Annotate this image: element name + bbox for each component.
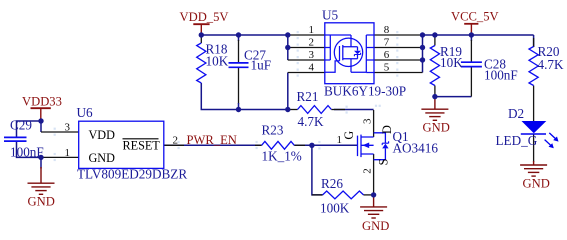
svg-text:3: 3 [65, 121, 71, 133]
resistor R20 [529, 47, 538, 86]
capacitor C27 [229, 63, 249, 67]
wire R21 to Q1 drain elbow [334, 109, 374, 111]
wire PWR_EN net [164, 144, 262, 146]
svg-text:BUK6Y19-30P: BUK6Y19-30P [324, 83, 406, 98]
svg-text:GND: GND [523, 177, 550, 191]
pin U5 pin8 [374, 34, 423, 36]
svg-text:GND: GND [89, 151, 116, 165]
wire C28 top hang [470, 35, 472, 41]
svg-text:R21: R21 [297, 89, 319, 104]
wire gate node drop [312, 145, 323, 195]
D2 emission arrow 2 [545, 140, 553, 147]
svg-text:G: G [342, 131, 356, 140]
svg-text:2: 2 [309, 37, 315, 49]
pin U5 pin5 [374, 72, 423, 74]
wire VDD_5V rail [201, 34, 287, 36]
wire U6 gnd stub [40, 157, 42, 168]
pin U5 pin1 [288, 34, 325, 36]
pin R20 bottom lead [533, 86, 535, 122]
svg-text:4: 4 [309, 62, 315, 74]
pin U5 pin4 [288, 72, 325, 74]
pin U5 pin2 [288, 47, 325, 49]
svg-text:7: 7 [384, 37, 390, 49]
pin R21 left lead [288, 109, 298, 111]
pin C28 top lead [470, 40, 472, 62]
U6 RESET overline [123, 138, 159, 140]
svg-text:R23: R23 [262, 122, 284, 137]
svg-text:U6: U6 [77, 105, 94, 120]
wire gate rail R18/C27 bottom to R21 [201, 83, 287, 110]
wire U5 right bus [422, 35, 424, 73]
pin Q1 drain [373, 110, 375, 137]
svg-text:8: 8 [384, 24, 390, 36]
svg-text:D: D [380, 125, 394, 134]
svg-text:2: 2 [173, 135, 179, 147]
svg-text:1: 1 [309, 24, 315, 36]
svg-text:4.7K: 4.7K [298, 114, 324, 129]
pin R23 right lead [294, 144, 305, 146]
U5 inner mosfet symbol [325, 35, 374, 73]
svg-text:VCC_5V: VCC_5V [451, 9, 499, 23]
pin U5 pin3 [288, 59, 325, 61]
svg-text:AO3416: AO3416 [393, 140, 439, 155]
resistor R26 [323, 191, 364, 199]
capacitor C29 [4, 137, 27, 141]
resistor R19 [430, 46, 439, 86]
svg-text:VDD: VDD [89, 128, 116, 142]
wire U5 left bus [287, 35, 289, 60]
svg-text:U5: U5 [322, 8, 339, 23]
wire VCC_5V rail [423, 34, 534, 36]
pin C27 top lead [238, 40, 240, 63]
svg-text:100K: 100K [320, 201, 350, 216]
pin R23 left lead [255, 144, 262, 146]
pin R26 left lead [312, 194, 323, 196]
D2 emission arrow 1 [549, 133, 557, 140]
resistor R21 [298, 106, 332, 114]
pin R19 bottom lead [434, 86, 436, 97]
svg-text:1: 1 [65, 147, 71, 159]
wire R19 bottom to C28 bottom [435, 96, 472, 98]
U5 body diode triangle [354, 51, 361, 55]
svg-text:1uF: 1uF [251, 57, 272, 72]
pin R18 top lead [200, 35, 202, 43]
op-amp U6 box [79, 121, 164, 168]
svg-text:10K: 10K [440, 55, 463, 70]
pin Q1 source [373, 154, 375, 196]
svg-text:GND: GND [28, 195, 55, 209]
power VCC_5V bar [464, 23, 478, 25]
svg-text:LED_G: LED_G [496, 133, 538, 148]
pin U6 pin1 [41, 156, 79, 158]
svg-text:D2: D2 [508, 106, 524, 121]
svg-text:1K_1%: 1K_1% [262, 149, 302, 164]
svg-text:RESET: RESET [123, 139, 161, 153]
pin R20 top lead [533, 38, 535, 47]
D2 cathode bar [521, 133, 546, 135]
resistor R23 [262, 141, 295, 149]
pin U5 pin7 [374, 47, 423, 49]
ground under U6 [28, 167, 55, 194]
U5 body diode bar [354, 53, 360, 56]
svg-text:4.7K: 4.7K [538, 57, 564, 72]
resistor R18 [197, 43, 206, 83]
power VDD_5V bar [193, 23, 209, 25]
svg-text:3: 3 [309, 49, 315, 61]
pin R21 right lead [331, 109, 345, 111]
svg-text:TLV809ED29DBZR: TLV809ED29DBZR [77, 166, 187, 181]
Q1 channel arrow [362, 143, 369, 149]
svg-text:PWR_EN: PWR_EN [187, 133, 237, 147]
wire U5 pin4 drop to gate rail [287, 73, 289, 110]
wire VDD33 node drop to pin3 [40, 121, 42, 132]
pin R19 top lead [434, 35, 436, 46]
diode D2 LED triangle [522, 121, 547, 133]
pin U6 pin3 [41, 131, 79, 133]
svg-text:VDD33: VDD33 [22, 95, 62, 109]
svg-text:VDD_5V: VDD_5V [180, 10, 229, 24]
capacitor C28 [461, 62, 482, 66]
wire R26 right lead to source node [364, 194, 374, 196]
wire C27 top stub [238, 35, 240, 41]
svg-text:GND: GND [423, 121, 450, 135]
ground under R19 [421, 97, 448, 121]
ground under Q1 [360, 196, 387, 218]
svg-text:C29: C29 [10, 118, 32, 133]
wire C27 bottom stub [238, 103, 240, 110]
svg-text:100nF: 100nF [484, 68, 518, 83]
svg-text:2: 2 [362, 168, 374, 174]
ground under D2 [520, 161, 547, 176]
hotspot marks [54, 31, 399, 161]
svg-text:10K: 10K [206, 53, 229, 68]
transistor Q1 symbol [358, 133, 386, 160]
svg-text:6: 6 [384, 49, 390, 61]
wire C29 bottom to U6 pin1 [17, 141, 42, 157]
wire R20 top elbow [533, 35, 535, 47]
svg-text:3: 3 [362, 118, 374, 124]
svg-text:S: S [377, 158, 391, 165]
svg-text:5: 5 [384, 62, 390, 74]
svg-text:R26: R26 [321, 176, 343, 191]
pin U6 pin2 [164, 144, 184, 146]
Q1 body diode triangle [382, 144, 388, 149]
wire R23 to Q1 gate [294, 144, 357, 146]
pin C28 bottom lead [470, 67, 472, 97]
op-amp U5 box [325, 23, 374, 84]
Q1 body diode bar [382, 141, 388, 145]
pin C27 bottom lead [238, 67, 240, 104]
pin D2 cathode lead [533, 134, 535, 162]
svg-text:GND: GND [362, 219, 389, 233]
power VDD33 bar [31, 107, 51, 109]
pin U5 pin6 [374, 59, 423, 61]
wire VDD33 node to C29 [17, 121, 42, 138]
svg-text:100nF: 100nF [10, 145, 44, 160]
